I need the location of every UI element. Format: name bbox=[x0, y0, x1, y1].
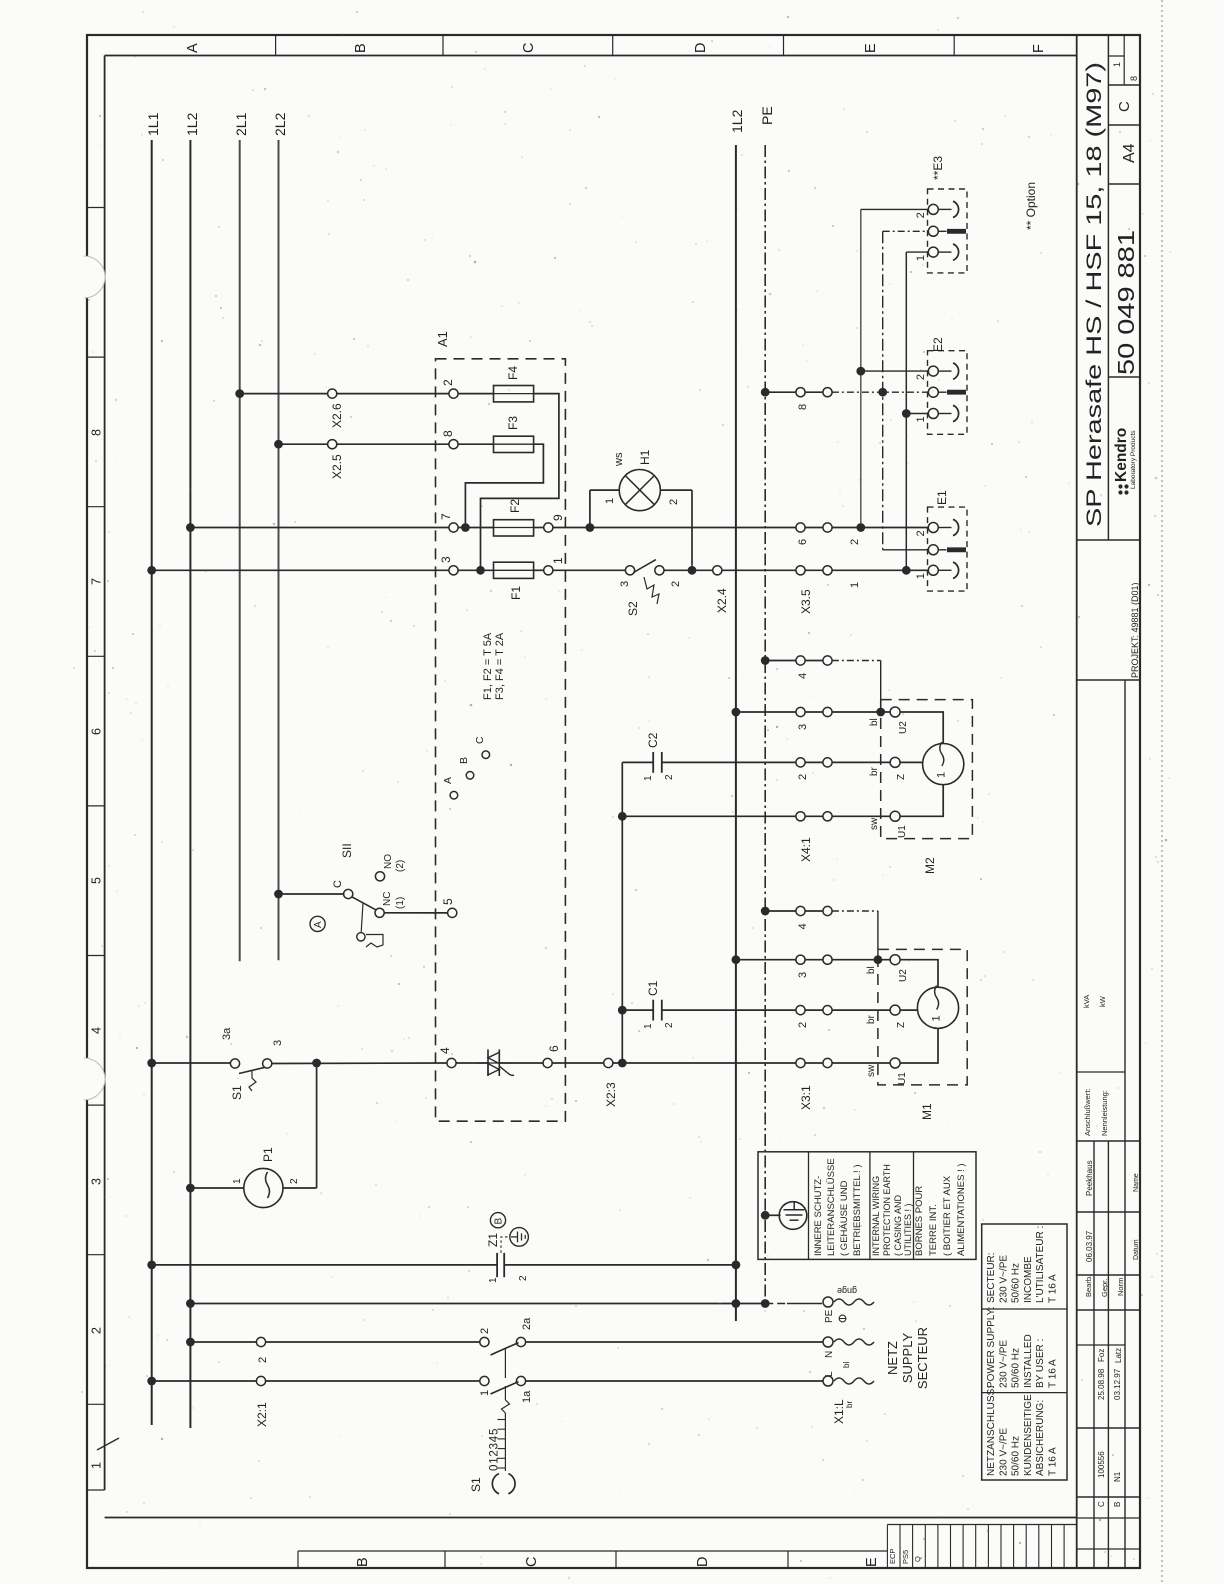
svg-text:( CASING AND: ( CASING AND bbox=[893, 1194, 903, 1256]
wire row 4 (M1) from PE bbox=[761, 907, 770, 916]
wire row 8 from 2L2 to fuse F3 bbox=[274, 440, 283, 449]
power rail 2L1 bbox=[239, 140, 241, 961]
svg-text:PS5: PS5 bbox=[901, 1550, 910, 1564]
svg-text:br: br bbox=[866, 1014, 877, 1024]
A1 terminal 2 bbox=[449, 389, 458, 398]
svg-text:SII: SII bbox=[340, 843, 354, 858]
svg-text:KUNDENSEITIGE: KUNDENSEITIGE bbox=[1023, 1394, 1034, 1476]
wire row 8 PE to E2 bbox=[761, 388, 770, 397]
wire row U1 (M1) X2.3 to motor bbox=[604, 1058, 613, 1067]
svg-text:kW: kW bbox=[1098, 995, 1107, 1007]
svg-text:NO: NO bbox=[383, 854, 394, 869]
svg-text:NC: NC bbox=[382, 892, 393, 906]
svg-text:bl: bl bbox=[869, 718, 880, 726]
socket **E3 pin circles bbox=[928, 204, 938, 214]
svg-text:25.08.98: 25.08.98 bbox=[1097, 1368, 1106, 1400]
protective earth circle symbol bbox=[779, 1202, 807, 1230]
svg-text:1L2: 1L2 bbox=[729, 109, 745, 133]
svg-text:br: br bbox=[869, 766, 880, 776]
svg-text:Z: Z bbox=[896, 1022, 907, 1028]
svg-text:6: 6 bbox=[547, 1045, 561, 1052]
svg-text:INCOMBE: INCOMBE bbox=[1023, 1256, 1034, 1303]
socket E2 pin circles bbox=[928, 366, 938, 376]
svg-text:1: 1 bbox=[643, 1023, 654, 1029]
S1 mechanical link and rotary knob bbox=[504, 1349, 506, 1378]
svg-text:1: 1 bbox=[915, 573, 927, 579]
socket E2 contacts bbox=[953, 363, 959, 379]
svg-text:C: C bbox=[524, 1557, 540, 1567]
svg-text:C: C bbox=[521, 43, 537, 53]
switch S1 pole 3a-3 bbox=[230, 1059, 239, 1068]
svg-text:INTERNAL WIRING: INTERNAL WIRING bbox=[871, 1176, 881, 1256]
socket outlet E2 dashed outline bbox=[928, 351, 968, 435]
svg-text:50/60 Hz: 50/60 Hz bbox=[1011, 1436, 1022, 1476]
wire SII NC to A1 terminal 5 bbox=[384, 912, 447, 914]
svg-text:B: B bbox=[355, 1557, 371, 1567]
svg-text:2L1: 2L1 bbox=[233, 112, 249, 136]
svg-text:2L2: 2L2 bbox=[272, 112, 288, 136]
power supply spec table bbox=[982, 1224, 1067, 1480]
svg-text:03.12.97: 03.12.97 bbox=[1113, 1368, 1122, 1400]
Z1 chassis link bbox=[501, 1237, 510, 1253]
svg-text:X3:1: X3:1 bbox=[799, 1085, 813, 1110]
svg-text:F4: F4 bbox=[506, 366, 520, 380]
svg-text:PROJEKT: 49881 (D01): PROJEKT: 49881 (D01) bbox=[1130, 582, 1140, 678]
svg-text:D: D bbox=[695, 1557, 711, 1567]
svg-text:SP Herasafe HS / HSF 15, 18: SP Herasafe HS / HSF 15, 18 (M97) bbox=[1083, 62, 1106, 527]
socket outlet **E3 dashed outline bbox=[928, 189, 968, 273]
svg-text:Norm: Norm bbox=[1116, 1278, 1125, 1296]
protective earth junction bbox=[761, 1211, 770, 1220]
svg-text:Anschlußwert:: Anschlußwert: bbox=[1083, 1088, 1092, 1136]
svg-text:SECTEUR: SECTEUR bbox=[915, 1327, 930, 1389]
svg-text:06.03.97: 06.03.97 bbox=[1085, 1230, 1094, 1262]
svg-text:bl: bl bbox=[866, 966, 877, 974]
power rail 1L2 right bbox=[735, 145, 737, 1321]
A1 terminal 6 bbox=[499, 1062, 543, 1064]
capacitor C2 bbox=[622, 761, 653, 763]
power rail PE dash-dot bbox=[764, 145, 766, 1304]
svg-text:50/60 Hz: 50/60 Hz bbox=[1011, 1348, 1022, 1388]
svg-text:1: 1 bbox=[488, 1277, 499, 1283]
E3 option stubs bbox=[861, 208, 929, 210]
wire row Z (M2) from C2 bbox=[662, 761, 796, 763]
svg-text:bl: bl bbox=[842, 1362, 851, 1368]
svg-text:Datum: Datum bbox=[1133, 1239, 1140, 1260]
svg-text:2: 2 bbox=[257, 1357, 269, 1363]
svg-text:2: 2 bbox=[668, 499, 680, 505]
svg-text:A1: A1 bbox=[435, 331, 450, 347]
wire row 6 terminals X3.5a bbox=[796, 523, 805, 532]
svg-text:S2: S2 bbox=[626, 601, 640, 616]
svg-text:ECP: ECP bbox=[888, 1549, 897, 1564]
svg-text:1: 1 bbox=[849, 582, 861, 588]
terminal X1 L bbox=[823, 1376, 833, 1386]
svg-text:(2): (2) bbox=[395, 860, 406, 872]
svg-text:C1: C1 bbox=[646, 980, 660, 996]
fuse unit A1 dashed enclosure bbox=[436, 359, 566, 1121]
power rail 1L2 left bbox=[189, 140, 191, 1428]
svg-text:5: 5 bbox=[90, 877, 104, 884]
svg-text:Latz: Latz bbox=[1114, 1348, 1123, 1363]
svg-text:E: E bbox=[864, 1557, 880, 1567]
wire row 3 (M1) from 1L2 bbox=[732, 955, 741, 964]
svg-text:2: 2 bbox=[915, 530, 927, 536]
svg-text:2: 2 bbox=[479, 1328, 491, 1334]
svg-text:1: 1 bbox=[915, 255, 927, 261]
socket bus PE dash-dot bbox=[882, 231, 884, 550]
svg-text:INNERE SCHUTZ-: INNERE SCHUTZ- bbox=[813, 1176, 824, 1256]
hour meter P1 bbox=[316, 1063, 318, 1188]
svg-text:N: N bbox=[824, 1351, 835, 1358]
svg-text:SECTEUR:: SECTEUR: bbox=[986, 1252, 997, 1303]
motor M1 bbox=[890, 955, 900, 965]
wire F3 output loop to node 7 bbox=[465, 444, 543, 527]
power rail 2L2 bbox=[278, 140, 280, 960]
svg-text:B: B bbox=[494, 1218, 505, 1225]
svg-text:1L2: 1L2 bbox=[184, 112, 200, 136]
svg-text:X4:1: X4:1 bbox=[799, 837, 813, 862]
svg-text:230 V~/PE: 230 V~/PE bbox=[998, 1340, 1009, 1388]
socket E1 pin circles bbox=[928, 523, 938, 533]
svg-text:4: 4 bbox=[90, 1027, 104, 1034]
svg-text:3: 3 bbox=[272, 1040, 284, 1046]
A1 terminal 8 bbox=[449, 440, 458, 449]
svg-text:3: 3 bbox=[619, 581, 631, 587]
A1 terminal 1 bbox=[534, 569, 544, 571]
triac V1 bbox=[456, 1062, 488, 1064]
A1 terminal 5 bbox=[448, 908, 457, 917]
svg-text:3: 3 bbox=[797, 972, 809, 978]
svg-text:B: B bbox=[353, 43, 369, 53]
svg-text:Peekhaus: Peekhaus bbox=[1085, 1160, 1094, 1196]
svg-text:L: L bbox=[824, 1371, 835, 1377]
svg-text:4: 4 bbox=[797, 923, 809, 929]
svg-text:br: br bbox=[845, 1401, 854, 1408]
svg-text:E2: E2 bbox=[931, 337, 945, 352]
svg-text:2: 2 bbox=[915, 212, 927, 218]
svg-text:X2:1: X2:1 bbox=[255, 1402, 269, 1427]
svg-text:1L1: 1L1 bbox=[145, 112, 161, 136]
svg-text:6: 6 bbox=[797, 539, 809, 545]
svg-text:Gepr.: Gepr. bbox=[1100, 1279, 1109, 1297]
svg-text:B: B bbox=[1113, 1502, 1122, 1507]
svg-text:C: C bbox=[474, 736, 486, 744]
circled note B bbox=[490, 1213, 505, 1228]
svg-text:X2.4: X2.4 bbox=[715, 588, 729, 613]
svg-text:1: 1 bbox=[936, 772, 948, 778]
svg-text:2: 2 bbox=[518, 1275, 529, 1281]
svg-text:sw: sw bbox=[869, 817, 880, 830]
svg-text:C2: C2 bbox=[646, 732, 660, 748]
svg-text:P1: P1 bbox=[261, 1147, 275, 1162]
fuse F2 bbox=[458, 527, 493, 529]
svg-text:100556: 100556 bbox=[1097, 1451, 1106, 1478]
power rail 1L1 bbox=[151, 140, 153, 1425]
svg-text:2: 2 bbox=[289, 1178, 300, 1184]
svg-text:PE: PE bbox=[759, 106, 775, 125]
capacitor bus vertical bbox=[621, 762, 623, 1063]
svg-text:T 16 A: T 16 A bbox=[1048, 1447, 1059, 1476]
wire row Z (M1) from C1 bbox=[662, 1009, 796, 1011]
svg-text:(1): (1) bbox=[395, 897, 406, 909]
svg-text:A: A bbox=[185, 43, 201, 53]
svg-text:2: 2 bbox=[664, 774, 675, 780]
fuse F4 bbox=[458, 393, 493, 395]
wire row 3 (M2) from 1L2 bbox=[732, 708, 741, 717]
svg-text:X1:L: X1:L bbox=[832, 1399, 846, 1424]
svg-text:LEITERANSCHLÜSSE: LEITERANSCHLÜSSE bbox=[826, 1158, 837, 1256]
svg-text:PROTECTION EARTH: PROTECTION EARTH bbox=[882, 1164, 892, 1256]
svg-text:8: 8 bbox=[90, 429, 104, 436]
protective earth note box bbox=[758, 1152, 976, 1260]
SII actuator bbox=[361, 903, 363, 932]
motor M2 dashed enclosure bbox=[881, 700, 973, 839]
wire N row from 1L2 bbox=[186, 1338, 195, 1347]
terminal X2:1 pin2 bbox=[256, 1337, 265, 1346]
svg-text:X2.5: X2.5 bbox=[330, 454, 344, 479]
svg-text:50/60 Hz: 50/60 Hz bbox=[1011, 1263, 1022, 1303]
svg-text:X2.6: X2.6 bbox=[330, 403, 344, 428]
svg-text:2: 2 bbox=[797, 1022, 809, 1028]
svg-text:F3: F3 bbox=[506, 416, 520, 430]
svg-text:E1: E1 bbox=[935, 490, 949, 505]
E2 pin1 stub bbox=[902, 409, 911, 418]
svg-text:U2: U2 bbox=[898, 721, 909, 734]
svg-text:1: 1 bbox=[90, 1462, 104, 1469]
svg-text:1: 1 bbox=[643, 775, 654, 781]
switch S1 pole 2-2a bbox=[480, 1337, 489, 1346]
svg-text:NETZANSCHLUSS:: NETZANSCHLUSS: bbox=[986, 1386, 997, 1476]
terminal X2.4 bbox=[713, 566, 722, 575]
svg-text:B: B bbox=[458, 757, 470, 764]
svg-text:F1: F1 bbox=[509, 586, 523, 600]
svg-text:X3.5: X3.5 bbox=[799, 589, 813, 614]
svg-text:Nennleistung:: Nennleistung: bbox=[1100, 1090, 1109, 1136]
svg-text:C: C bbox=[332, 880, 344, 888]
wire row 7 from 1L2 to fuse F2 bbox=[186, 523, 195, 532]
switch S1 pole 1-1a bbox=[480, 1376, 489, 1385]
wire L row from 1L1 bbox=[147, 1377, 156, 1386]
wire 2L2 to SII common bbox=[274, 890, 283, 899]
svg-text:kVA: kVA bbox=[1082, 995, 1091, 1008]
svg-text:SUPPLY: SUPPLY bbox=[900, 1333, 915, 1384]
svg-text:F: F bbox=[1031, 44, 1047, 53]
capacitor C1 bbox=[618, 1006, 627, 1015]
svg-text:F2: F2 bbox=[508, 499, 522, 513]
svg-text:( BOITIER ET AUX: ( BOITIER ET AUX bbox=[942, 1175, 953, 1256]
svg-text:1: 1 bbox=[551, 557, 565, 564]
svg-text:ALIMENTATIONES ! ): ALIMENTATIONES ! ) bbox=[956, 1163, 967, 1256]
svg-text:2: 2 bbox=[90, 1327, 104, 1334]
svg-text:012345: 012345 bbox=[489, 1428, 501, 1471]
svg-text:8: 8 bbox=[1129, 76, 1139, 81]
svg-text:9: 9 bbox=[551, 514, 565, 521]
svg-text:2: 2 bbox=[441, 379, 455, 386]
svg-text:3: 3 bbox=[439, 556, 453, 563]
svg-text:T 16 A: T 16 A bbox=[1048, 1359, 1059, 1388]
svg-text:BORNES POUR: BORNES POUR bbox=[914, 1186, 925, 1256]
svg-text:Laboratory Products: Laboratory Products bbox=[1130, 430, 1137, 489]
svg-text:M1: M1 bbox=[920, 1103, 934, 1120]
svg-text:sw: sw bbox=[866, 1064, 877, 1077]
wire A1 terminal 1 to switch S2 bbox=[553, 569, 626, 571]
E2 pin2 stub bbox=[856, 367, 865, 376]
svg-text:L'UTILISATEUR :: L'UTILISATEUR : bbox=[1035, 1226, 1046, 1303]
svg-text:3: 3 bbox=[797, 724, 809, 730]
junction lamp H1 and S2 output bbox=[688, 566, 697, 575]
svg-text:S1: S1 bbox=[230, 1085, 244, 1100]
svg-text:M2: M2 bbox=[923, 857, 937, 874]
svg-text:4: 4 bbox=[438, 1047, 452, 1054]
svg-text:3: 3 bbox=[90, 1178, 104, 1185]
svg-text:POWER SUPPLY:: POWER SUPPLY: bbox=[986, 1306, 997, 1388]
wire Z1 to 1L2 right rail bbox=[504, 1264, 736, 1266]
chassis earth circle at Z1 bbox=[510, 1228, 529, 1247]
socket bus pin1 (from X2.4 wire) bbox=[905, 252, 907, 570]
svg-text:A4: A4 bbox=[1121, 143, 1138, 163]
motor M2 bbox=[890, 707, 900, 717]
svg-text:5: 5 bbox=[441, 898, 455, 905]
wire 1L1 to S1 pole 3 bbox=[147, 1059, 156, 1068]
svg-text:D: D bbox=[693, 43, 709, 53]
svg-text:**E3: **E3 bbox=[931, 156, 945, 180]
wire 1L2 to P1 bbox=[186, 1184, 195, 1193]
svg-text:F1, F2 = T 5A: F1, F2 = T 5A bbox=[482, 632, 494, 700]
svg-text:ABSICHERUNG:: ABSICHERUNG: bbox=[1035, 1400, 1046, 1476]
svg-text:PE: PE bbox=[824, 1309, 835, 1323]
socket bus pin2 (from wire 6) bbox=[860, 209, 862, 527]
svg-text:8: 8 bbox=[441, 430, 455, 437]
svg-text:50 049 881: 50 049 881 bbox=[1113, 230, 1139, 375]
svg-text:230 V~/PE: 230 V~/PE bbox=[998, 1255, 1009, 1303]
svg-text:Kendro: Kendro bbox=[1113, 428, 1130, 482]
terminal X1 N bbox=[823, 1337, 833, 1347]
wire S1 pole3 to A1 terminal 4 bbox=[272, 1062, 447, 1065]
wire row 4 (M2) from PE bbox=[761, 656, 770, 665]
svg-text:1: 1 bbox=[915, 416, 927, 422]
socket E1 contacts bbox=[953, 519, 959, 535]
svg-text:A: A bbox=[313, 921, 324, 928]
A1 terminal 7 bbox=[449, 523, 458, 532]
svg-text:Z1: Z1 bbox=[486, 1233, 500, 1247]
svg-text:Name: Name bbox=[1133, 1173, 1140, 1192]
socket **E3 contacts bbox=[953, 201, 959, 217]
wire F4 output loop to node 3 bbox=[481, 394, 559, 571]
capacitor Z1 bbox=[496, 1253, 498, 1277]
svg-text:** Option: ** Option bbox=[1024, 182, 1038, 230]
svg-text:3a: 3a bbox=[221, 1027, 233, 1040]
svg-text:1: 1 bbox=[604, 498, 616, 504]
svg-text:2a: 2a bbox=[521, 1317, 533, 1330]
wire row 2 from 2L1 to fuse F4 bbox=[235, 389, 244, 398]
terminal X2.5 bbox=[328, 440, 337, 449]
svg-text:Bearb.: Bearb. bbox=[1084, 1275, 1093, 1297]
svg-text:UTILITIES ! ): UTILITIES ! ) bbox=[903, 1203, 913, 1256]
svg-text:NETZ: NETZ bbox=[885, 1341, 900, 1375]
svg-text:C: C bbox=[1097, 1501, 1106, 1507]
switch SII bbox=[344, 889, 353, 898]
test points A B C bbox=[450, 791, 458, 799]
svg-text:Z: Z bbox=[896, 774, 907, 780]
svg-text:T 16 A: T 16 A bbox=[1048, 1274, 1059, 1303]
svg-text:Q: Q bbox=[913, 1556, 922, 1562]
svg-text:BY USER :: BY USER : bbox=[1035, 1339, 1046, 1388]
svg-text:1a: 1a bbox=[521, 1390, 533, 1403]
terminal X2:1 pin1 bbox=[256, 1376, 265, 1385]
svg-text:2: 2 bbox=[664, 1022, 675, 1028]
svg-text:U2: U2 bbox=[898, 969, 909, 982]
svg-text:1: 1 bbox=[479, 1390, 491, 1396]
A1 terminal 4 bbox=[447, 1058, 456, 1067]
svg-text:U1: U1 bbox=[897, 825, 908, 838]
wire row 3 from 1L1 to fuse F1 bbox=[147, 566, 156, 575]
svg-text:2: 2 bbox=[797, 774, 809, 780]
switch S2 bbox=[625, 566, 634, 575]
fuse F1 bbox=[458, 569, 493, 571]
svg-text:230 V~/PE: 230 V~/PE bbox=[998, 1428, 1009, 1476]
svg-text:1: 1 bbox=[232, 1178, 243, 1184]
svg-text:S1: S1 bbox=[469, 1477, 483, 1492]
wire L2 link row bbox=[186, 1299, 195, 1308]
svg-text:TERRE INT.: TERRE INT. bbox=[928, 1204, 939, 1256]
svg-text:E: E bbox=[863, 43, 879, 53]
svg-text:7: 7 bbox=[439, 513, 453, 520]
svg-text:Foz: Foz bbox=[1097, 1349, 1106, 1362]
svg-text:X2:3: X2:3 bbox=[604, 1082, 618, 1107]
svg-text:H1: H1 bbox=[638, 449, 652, 465]
svg-text:A: A bbox=[442, 777, 454, 784]
svg-text:C: C bbox=[1116, 101, 1133, 112]
wire node 9 to lamp and row 6 bbox=[586, 523, 595, 532]
svg-text:2: 2 bbox=[670, 581, 682, 587]
lamp H1 bbox=[589, 490, 591, 527]
wire X2.4 row terminals X3.5 bbox=[796, 566, 805, 575]
socket outlet E1 dashed outline bbox=[928, 507, 968, 591]
motor M1 dashed enclosure bbox=[878, 949, 967, 1085]
svg-text:1: 1 bbox=[931, 1015, 943, 1021]
svg-text:U1: U1 bbox=[897, 1072, 908, 1085]
svg-text:F3, F4 = T 2A: F3, F4 = T 2A bbox=[494, 632, 506, 700]
svg-text:4: 4 bbox=[797, 673, 809, 679]
wire row U1 (M2) from capacitor bus bbox=[618, 812, 627, 821]
svg-text:8: 8 bbox=[797, 404, 809, 410]
E1 PE stub from bus bbox=[883, 549, 929, 551]
svg-text:N1: N1 bbox=[1113, 1471, 1122, 1482]
svg-text:BETRIEBSMITTEL ! ): BETRIEBSMITTEL ! ) bbox=[852, 1165, 863, 1257]
svg-text:2: 2 bbox=[915, 374, 927, 380]
svg-text:ws: ws bbox=[613, 452, 625, 467]
svg-text:1: 1 bbox=[1112, 62, 1122, 67]
A1 terminal 9 bbox=[534, 527, 544, 529]
terminal X1 PE bbox=[765, 1303, 787, 1305]
svg-text:2: 2 bbox=[849, 539, 861, 545]
terminal X2.6 bbox=[328, 389, 337, 398]
circled note A bbox=[310, 916, 325, 931]
svg-text:7: 7 bbox=[90, 578, 104, 585]
rotary switch S1 symbol bbox=[492, 1474, 499, 1494]
svg-text:6: 6 bbox=[90, 728, 104, 735]
svg-text:INSTALLED: INSTALLED bbox=[1023, 1334, 1034, 1388]
svg-text:gnge: gnge bbox=[837, 1286, 857, 1296]
A1 terminal 3 bbox=[449, 566, 458, 575]
fuse F3 bbox=[458, 443, 493, 445]
svg-text:( GEHÄUSE UND: ( GEHÄUSE UND bbox=[839, 1180, 850, 1256]
wire 1L1 to Z1 bbox=[147, 1261, 156, 1270]
